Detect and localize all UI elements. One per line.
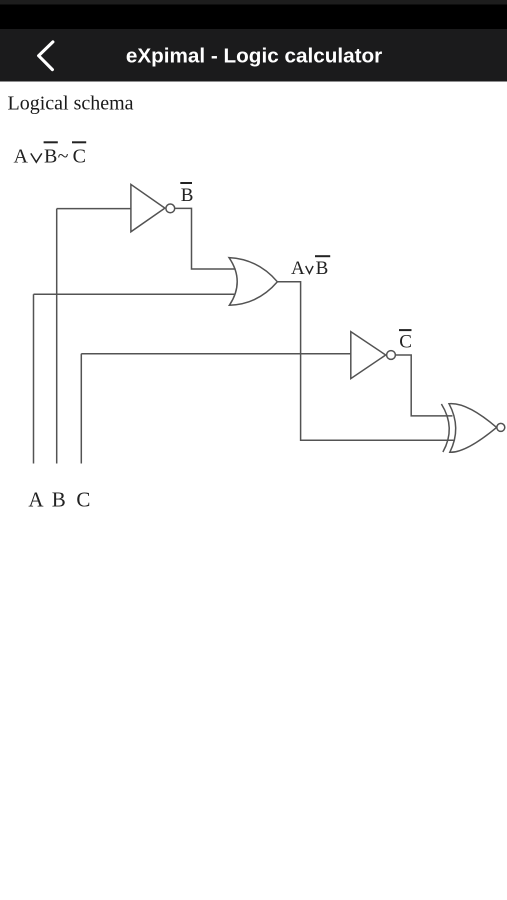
svg-text:B: B bbox=[52, 488, 66, 512]
svg-text:A: A bbox=[14, 145, 29, 167]
back chevron icon bbox=[39, 42, 53, 70]
XNOR gate U4 body bbox=[449, 404, 497, 453]
overline of label C bbox=[399, 329, 412, 331]
svg-text:A: A bbox=[291, 258, 305, 279]
label A or B: OR symbol bbox=[306, 266, 313, 273]
app header bar bbox=[0, 29, 507, 82]
inverter U3 output bubble bbox=[387, 351, 396, 360]
status bar bbox=[0, 0, 507, 29]
svg-text:B: B bbox=[316, 258, 329, 279]
wire: C vertical input line bbox=[80, 354, 82, 464]
XNOR gate U4 output bubble bbox=[497, 423, 505, 431]
svg-text:eXpimal - Logic calculator: eXpimal - Logic calculator bbox=[126, 45, 382, 68]
svg-text:A: A bbox=[28, 488, 44, 512]
input pin labels A B C bbox=[28, 488, 90, 512]
status bar top edge strip bbox=[0, 0, 507, 5]
wire: B horizontal into inverter U1 bbox=[57, 208, 131, 210]
wire: U1 output to corner bbox=[175, 208, 236, 269]
overline of label B bbox=[180, 182, 192, 184]
inverter U3 (NOT C) triangle bbox=[351, 332, 386, 379]
inverter U1 (NOT B) triangle bbox=[131, 184, 165, 231]
node label: not-B at U1 output bbox=[180, 183, 412, 352]
formula A or not-B xnor not-C bbox=[14, 142, 87, 167]
svg-text:B: B bbox=[44, 145, 57, 167]
svg-text:C: C bbox=[399, 331, 412, 352]
wire: B vertical input line bbox=[56, 209, 58, 464]
formula OR symbol bbox=[31, 153, 42, 162]
svg-text:~: ~ bbox=[58, 145, 69, 167]
formula overline over C bbox=[72, 141, 86, 143]
wire: U3 output to XNOR top input bbox=[395, 355, 452, 416]
svg-text:B: B bbox=[181, 185, 194, 206]
wire: C horizontal into inverter U3 bbox=[81, 353, 351, 355]
svg-text:C: C bbox=[76, 488, 90, 512]
svg-text:Logical schema: Logical schema bbox=[8, 92, 134, 114]
inverter U1 output bubble bbox=[166, 204, 175, 213]
formula overline over B bbox=[44, 141, 58, 143]
overline of label A or B bbox=[315, 255, 330, 257]
XNOR gate U4 leading arc bbox=[441, 404, 449, 452]
svg-text:C: C bbox=[73, 145, 86, 167]
wire: U2 output to XNOR bottom input bbox=[277, 282, 453, 440]
wire: A vertical input line bbox=[33, 294, 35, 463]
wire: A horizontal into OR gate U2 bbox=[34, 293, 236, 295]
OR gate U2 body bbox=[229, 258, 277, 306]
